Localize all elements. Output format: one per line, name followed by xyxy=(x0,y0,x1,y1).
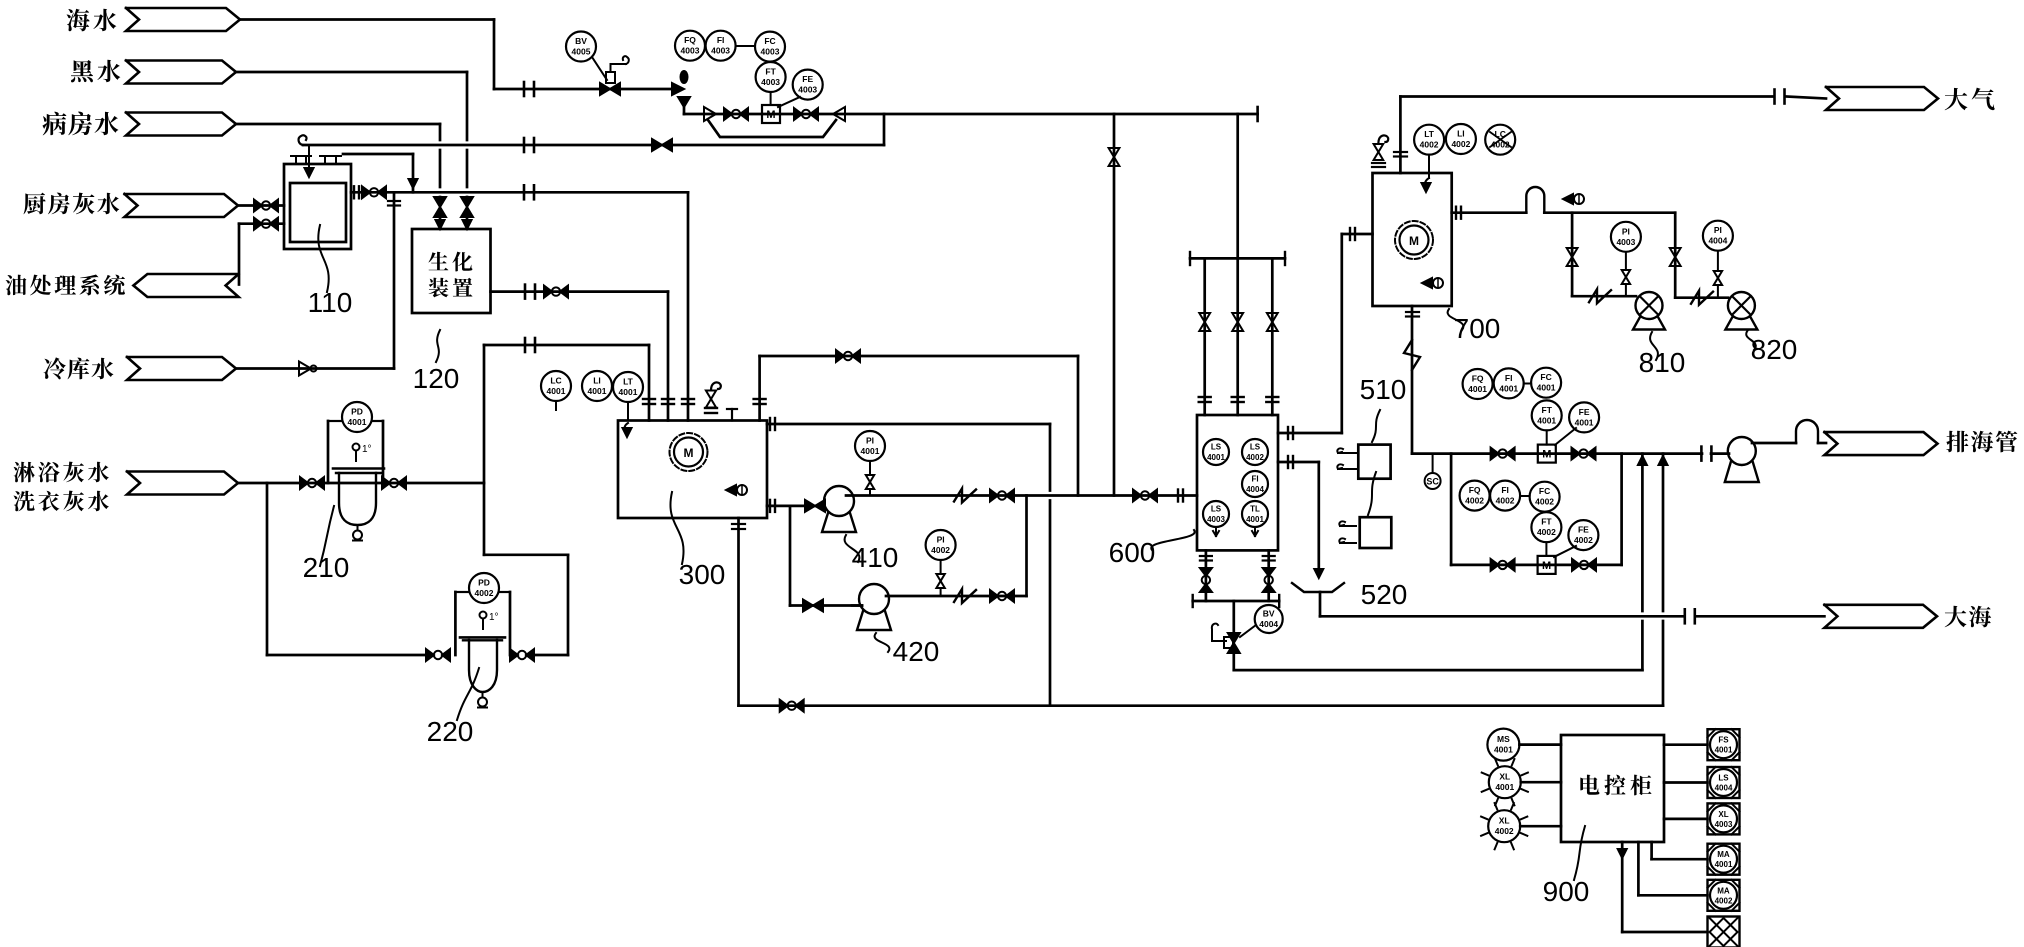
svg-text:FE: FE xyxy=(1579,407,1590,417)
svg-text:PI: PI xyxy=(1714,225,1722,235)
svg-text:M: M xyxy=(766,109,775,121)
svg-text:1°: 1° xyxy=(489,612,499,623)
svg-text:4003: 4003 xyxy=(681,46,700,56)
svg-text:300: 300 xyxy=(679,559,726,590)
svg-text:M: M xyxy=(1542,449,1551,461)
svg-text:XL: XL xyxy=(1499,772,1510,782)
svg-text:4002: 4002 xyxy=(1496,496,1515,506)
svg-text:4002: 4002 xyxy=(1715,896,1733,905)
svg-text:4001: 4001 xyxy=(547,386,566,396)
svg-text:FI: FI xyxy=(1501,485,1509,495)
svg-text:4001: 4001 xyxy=(1207,453,1225,462)
svg-text:PI: PI xyxy=(1622,226,1630,236)
svg-text:PD: PD xyxy=(351,407,363,417)
svg-text:FT: FT xyxy=(1542,405,1553,415)
svg-text:XL: XL xyxy=(1499,816,1510,826)
svg-text:LC: LC xyxy=(550,376,561,386)
svg-text:LI: LI xyxy=(593,376,601,386)
svg-text:M: M xyxy=(1542,560,1551,572)
svg-text:4001: 4001 xyxy=(1495,782,1514,792)
svg-text:PI: PI xyxy=(937,535,945,545)
svg-text:820: 820 xyxy=(1751,334,1798,365)
svg-text:4001: 4001 xyxy=(1499,383,1518,393)
svg-text:4001: 4001 xyxy=(348,417,367,427)
svg-text:4003: 4003 xyxy=(761,47,780,57)
svg-text:LT: LT xyxy=(1424,129,1435,139)
svg-text:BV: BV xyxy=(1263,609,1275,619)
svg-text:4001: 4001 xyxy=(619,387,638,397)
svg-text:700: 700 xyxy=(1454,313,1501,344)
svg-text:4002: 4002 xyxy=(931,545,950,555)
svg-text:M: M xyxy=(1409,234,1419,248)
svg-text:LI: LI xyxy=(1457,129,1465,139)
svg-text:M: M xyxy=(684,446,694,460)
svg-text:4001: 4001 xyxy=(1715,746,1733,755)
svg-text:LS: LS xyxy=(1211,505,1222,514)
svg-text:4003: 4003 xyxy=(1207,515,1225,524)
svg-text:4002: 4002 xyxy=(1451,139,1470,149)
svg-text:FC: FC xyxy=(1539,486,1550,496)
svg-text:810: 810 xyxy=(1639,347,1686,378)
svg-text:MA: MA xyxy=(1717,850,1730,859)
svg-text:PD: PD xyxy=(478,578,490,588)
svg-text:4001: 4001 xyxy=(588,386,607,396)
svg-text:4005: 4005 xyxy=(572,47,591,57)
svg-text:FI: FI xyxy=(717,35,725,45)
svg-text:4001: 4001 xyxy=(1537,415,1556,425)
svg-text:4004: 4004 xyxy=(1259,619,1278,629)
svg-text:FS: FS xyxy=(1718,736,1729,745)
svg-text:4003: 4003 xyxy=(1715,820,1733,829)
svg-text:220: 220 xyxy=(427,716,474,747)
svg-text:4001: 4001 xyxy=(1494,745,1513,755)
svg-text:4004: 4004 xyxy=(1715,784,1733,793)
svg-text:FT: FT xyxy=(765,67,776,77)
svg-text:LS: LS xyxy=(1211,443,1222,452)
svg-text:FC: FC xyxy=(1540,372,1551,382)
svg-text:120: 120 xyxy=(413,363,460,394)
svg-text:900: 900 xyxy=(1543,876,1590,907)
svg-text:SC: SC xyxy=(1426,477,1439,487)
svg-text:110: 110 xyxy=(308,287,353,318)
svg-text:LS: LS xyxy=(1718,774,1729,783)
svg-text:FE: FE xyxy=(1578,525,1589,535)
svg-text:600: 600 xyxy=(1109,537,1156,568)
svg-text:4002: 4002 xyxy=(1535,497,1554,507)
svg-text:MS: MS xyxy=(1497,734,1510,744)
svg-text:4001: 4001 xyxy=(1715,860,1733,869)
svg-text:FI: FI xyxy=(1251,475,1258,484)
svg-text:4003: 4003 xyxy=(1616,237,1635,247)
svg-text:4001: 4001 xyxy=(1575,417,1594,427)
svg-text:4002: 4002 xyxy=(1574,535,1593,545)
svg-text:4002: 4002 xyxy=(1420,140,1439,150)
svg-text:4001: 4001 xyxy=(861,446,880,456)
svg-text:4003: 4003 xyxy=(798,85,817,95)
svg-text:1°: 1° xyxy=(362,444,372,455)
svg-text:4004: 4004 xyxy=(1246,485,1264,494)
svg-text:510: 510 xyxy=(1360,374,1407,405)
svg-text:210: 210 xyxy=(303,552,350,583)
svg-text:4003: 4003 xyxy=(711,46,730,56)
svg-text:FT: FT xyxy=(1541,517,1552,527)
svg-text:4001: 4001 xyxy=(1537,383,1556,393)
svg-text:FC: FC xyxy=(764,36,775,46)
svg-text:4002: 4002 xyxy=(1246,453,1264,462)
svg-text:FI: FI xyxy=(1505,373,1513,383)
svg-text:MA: MA xyxy=(1717,886,1730,895)
svg-text:FQ: FQ xyxy=(1472,374,1484,384)
svg-text:BV: BV xyxy=(575,36,587,46)
svg-text:XL: XL xyxy=(1718,810,1728,819)
svg-text:PI: PI xyxy=(866,436,874,446)
svg-text:4001: 4001 xyxy=(1246,515,1264,524)
svg-text:520: 520 xyxy=(1361,579,1408,610)
svg-text:4003: 4003 xyxy=(761,77,780,87)
svg-text:FQ: FQ xyxy=(1469,485,1481,495)
svg-text:4002: 4002 xyxy=(475,588,494,598)
svg-text:LS: LS xyxy=(1250,443,1261,452)
svg-text:4001: 4001 xyxy=(1468,384,1487,394)
svg-text:4002: 4002 xyxy=(1537,527,1556,537)
svg-text:4004: 4004 xyxy=(1708,236,1727,246)
svg-text:FE: FE xyxy=(802,74,813,84)
svg-text:LT: LT xyxy=(623,377,634,387)
svg-text:420: 420 xyxy=(893,636,940,667)
svg-text:4002: 4002 xyxy=(1495,826,1514,836)
svg-text:FQ: FQ xyxy=(684,35,696,45)
svg-text:TL: TL xyxy=(1250,505,1260,514)
svg-text:4002: 4002 xyxy=(1465,496,1484,506)
